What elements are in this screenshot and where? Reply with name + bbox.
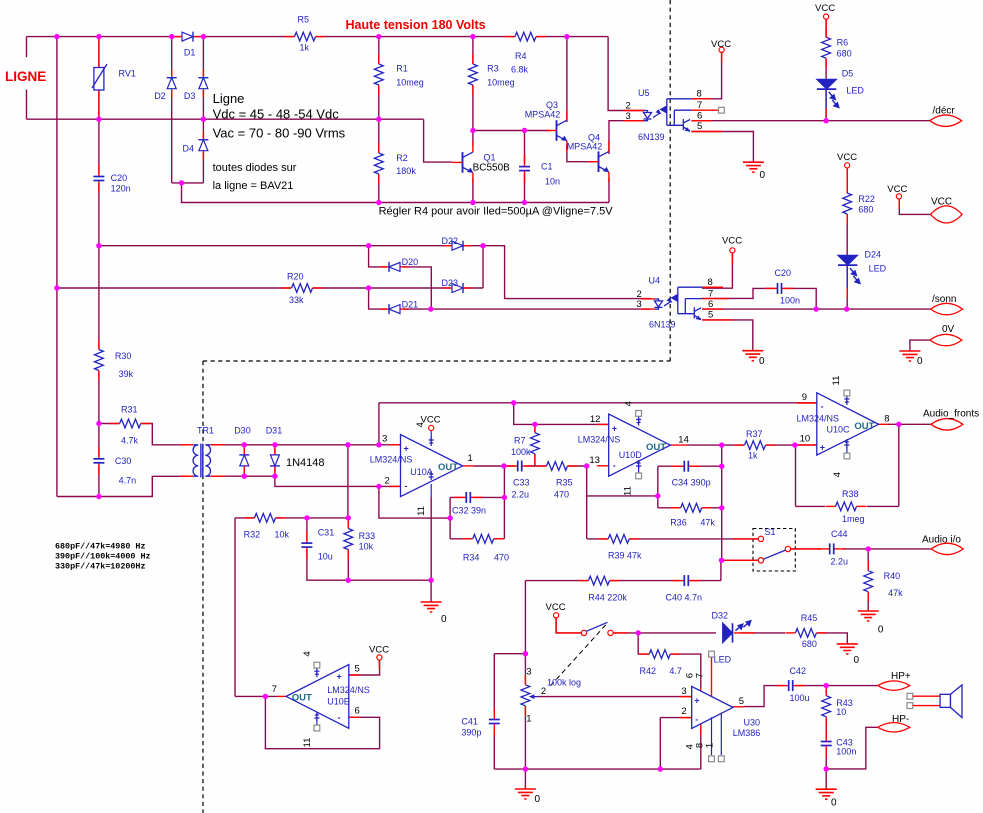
wire Q1 collector stub xyxy=(472,131,474,147)
wire U4 pin7 to C20 xyxy=(702,288,776,298)
junction (794.9,445.1) xyxy=(792,442,797,447)
wire feedback box C32 R34 xyxy=(450,466,504,539)
svg-text:100k log: 100k log xyxy=(547,677,581,687)
wire U10D out feedback vertical xyxy=(721,445,723,560)
resistor R43 xyxy=(821,686,853,727)
VCC symbol U10A pin4 xyxy=(421,415,441,431)
svg-text:RV1: RV1 xyxy=(119,69,136,79)
wire U10E pin5 to VCC xyxy=(349,660,380,675)
svg-text:/sonn: /sonn xyxy=(932,294,956,305)
speaker HP xyxy=(907,685,962,718)
svg-text:1N4148: 1N4148 xyxy=(286,457,325,469)
op-amp U10D LM324 xyxy=(578,401,689,496)
wire diode bottom link xyxy=(172,182,204,184)
svg-text:1: 1 xyxy=(468,453,473,464)
ground U5 pin5 xyxy=(743,162,766,181)
svg-text:C44: C44 xyxy=(831,529,848,539)
wire left vertical x57 xyxy=(56,37,58,497)
wire U10E output to R32 xyxy=(235,518,277,697)
junction (826.2,768.9) xyxy=(824,766,829,771)
svg-text:D2: D2 xyxy=(154,91,166,101)
wire R43 C43 column xyxy=(825,686,827,769)
svg-text:R37: R37 xyxy=(746,429,763,439)
junction (586.7,466) xyxy=(584,463,589,468)
svg-text:D5: D5 xyxy=(842,69,854,79)
svg-text:8: 8 xyxy=(708,277,713,288)
svg-text:470: 470 xyxy=(494,553,509,563)
junction (826.2,685.6) xyxy=(824,683,829,688)
op-amp U30 LM386 xyxy=(680,651,760,762)
svg-text:LED: LED xyxy=(846,86,864,96)
ground C43 xyxy=(816,789,837,808)
wire TR1 secondary top to U10A pin3 xyxy=(211,444,401,446)
potentiometer 100k log xyxy=(520,667,581,725)
wire HV bottom rail xyxy=(182,183,610,203)
svg-text:4: 4 xyxy=(302,651,313,656)
wire U10C output to Audio_fronts xyxy=(889,423,931,425)
junction (98.9,36.6) xyxy=(96,34,101,39)
wire top rail xyxy=(27,36,609,38)
svg-text:R39 47k: R39 47k xyxy=(608,551,642,561)
switch SW volume (on pot) xyxy=(549,622,614,688)
svg-text:VCC: VCC xyxy=(722,236,742,247)
resistor R22 xyxy=(842,183,875,224)
svg-text:U4: U4 xyxy=(649,276,661,286)
svg-text:LM324/NS: LM324/NS xyxy=(370,455,413,465)
wire ring lower row R20 D23 xyxy=(57,287,483,289)
wire pin13 to C34 box xyxy=(587,495,658,497)
wire D31 vertical xyxy=(274,445,276,476)
svg-text:6N139: 6N139 xyxy=(638,132,665,142)
diode D2 xyxy=(154,69,178,101)
junction (348.3,580.2) xyxy=(346,578,351,583)
svg-text:7: 7 xyxy=(272,684,277,695)
diode D21 xyxy=(381,299,419,315)
wire S1 common to C44 xyxy=(790,548,821,550)
wire C40 up to S1 contact xyxy=(720,560,722,580)
resistor R44 xyxy=(579,576,628,603)
svg-text:S1: S1 xyxy=(765,527,776,537)
capacitor C33 xyxy=(506,459,534,500)
wire C41 bottom xyxy=(493,732,495,769)
resistor R45 xyxy=(785,613,826,649)
svg-text:1: 1 xyxy=(704,743,715,748)
svg-text:C30: C30 xyxy=(115,456,132,466)
svg-text:39k: 39k xyxy=(119,369,134,379)
isolation barrier dashed line (right vertical) xyxy=(669,0,671,361)
op-amp U10E LM324 (mirrored) xyxy=(272,651,370,747)
resistor R39 xyxy=(598,534,642,561)
svg-text:D21: D21 xyxy=(402,299,419,309)
svg-text:100u: 100u xyxy=(790,693,810,703)
svg-text:R5: R5 xyxy=(298,15,310,25)
svg-text:OUT: OUT xyxy=(854,421,874,432)
wire bottom-left horizontal to TR1 xyxy=(57,476,189,496)
resistor R40 xyxy=(863,561,903,602)
junction (483,245.7) xyxy=(480,243,485,248)
diode D1 xyxy=(174,31,202,58)
svg-text:-: - xyxy=(338,713,341,723)
svg-text:R3: R3 xyxy=(487,64,499,74)
wire LIGNE bracket xyxy=(26,37,28,120)
resistor R31 xyxy=(110,404,151,445)
svg-text:7: 7 xyxy=(697,100,702,111)
svg-text:47k: 47k xyxy=(888,588,903,598)
svg-text:U10D: U10D xyxy=(619,450,643,460)
svg-text:6: 6 xyxy=(708,299,713,310)
wire U10D out row R37 to U10C pin10 xyxy=(688,444,817,446)
wire 0V port to ground xyxy=(910,340,930,351)
svg-text:R38: R38 xyxy=(842,489,859,499)
junction (504.4,497.4) xyxy=(502,495,507,500)
svg-text:12: 12 xyxy=(590,414,601,425)
wire D22/D23 cathode link xyxy=(482,246,484,288)
svg-text:C41: C41 xyxy=(461,717,478,727)
LED D24 xyxy=(838,250,887,299)
svg-text:R2: R2 xyxy=(396,153,408,163)
diode D20 xyxy=(381,257,419,273)
wire rail2 to Q1 base xyxy=(424,119,452,162)
svg-text:R31: R31 xyxy=(121,404,138,414)
ground 0V port xyxy=(899,351,923,367)
junction (181.5,182.9) xyxy=(179,180,184,185)
svg-text:100n: 100n xyxy=(780,296,800,306)
svg-text:14: 14 xyxy=(678,435,689,446)
LED D32 xyxy=(712,611,756,665)
junction (721.7,445.1) xyxy=(719,442,724,447)
svg-text:330pF//47k=10200Hz: 330pF//47k=10200Hz xyxy=(55,562,145,572)
svg-text:9: 9 xyxy=(802,392,807,403)
wire audio bottom rail xyxy=(494,768,701,770)
svg-text:D22: D22 xyxy=(442,236,459,246)
resistor R3 xyxy=(468,54,515,95)
svg-text:Q3: Q3 xyxy=(546,100,558,110)
transformer TR1 xyxy=(180,425,225,477)
junction (98.9,423.5) xyxy=(96,421,101,426)
svg-text:47k: 47k xyxy=(700,518,715,528)
svg-text:100n: 100n xyxy=(836,747,856,757)
wire VCC to volume switch xyxy=(556,618,581,633)
svg-text:VCC: VCC xyxy=(369,645,389,656)
svg-text:D4: D4 xyxy=(183,144,195,154)
svg-text:D24: D24 xyxy=(865,250,882,260)
svg-text:4.7k: 4.7k xyxy=(121,436,139,446)
diode D22 xyxy=(442,236,472,252)
resistor R35 xyxy=(537,461,578,500)
ground U4 pin5 xyxy=(742,351,765,367)
capacitor C44 xyxy=(818,529,848,567)
wire top rail corner to U5 pin2 xyxy=(608,37,644,111)
svg-text:7: 7 xyxy=(695,673,706,678)
wire C31 vertical xyxy=(306,518,308,547)
diode D23 xyxy=(442,278,472,294)
svg-text:2: 2 xyxy=(541,686,546,697)
resistor R1 xyxy=(374,54,424,95)
wire U30 pin4 down xyxy=(700,727,702,769)
resistor R4 xyxy=(505,32,546,75)
junction (524.5,130.5) xyxy=(522,128,527,133)
wire D5 column xyxy=(825,19,827,121)
svg-text:OUT: OUT xyxy=(292,693,312,704)
diode D3 xyxy=(184,69,210,101)
junction (203.4,36.6) xyxy=(201,34,206,39)
capacitor C1 xyxy=(518,155,561,187)
svg-text:R1: R1 xyxy=(396,64,408,74)
wire U4 pin6 net /sonn xyxy=(702,308,931,310)
junction (378.9,444.8) xyxy=(376,442,381,447)
junction (721.7,466.2) xyxy=(719,464,724,469)
svg-text:3: 3 xyxy=(637,299,642,310)
svg-text:2.2u: 2.2u xyxy=(512,490,530,500)
svg-text:C20: C20 xyxy=(111,173,128,183)
svg-text:0: 0 xyxy=(878,625,884,636)
wire C20 to sonn net xyxy=(784,288,817,309)
svg-text:10: 10 xyxy=(800,433,811,444)
svg-text:R20: R20 xyxy=(287,272,304,282)
svg-text:D32: D32 xyxy=(712,611,729,621)
svg-text:1k: 1k xyxy=(300,43,310,53)
wire U10A pin11 down xyxy=(430,497,432,581)
svg-text:2.2u: 2.2u xyxy=(831,557,849,567)
wire pot column xyxy=(524,654,526,769)
svg-text:3: 3 xyxy=(526,667,531,678)
wire D3 D4 branch vertical xyxy=(202,37,204,183)
junction (430.8,309.1) xyxy=(428,306,433,311)
svg-text:R7: R7 xyxy=(514,436,526,446)
svg-text:0: 0 xyxy=(535,794,541,805)
resistor R7 xyxy=(511,423,540,464)
svg-text:180k: 180k xyxy=(396,166,416,176)
VCC symbol above R22 xyxy=(837,152,857,168)
wire D21 branch xyxy=(369,288,431,309)
VCC symbol above R6 xyxy=(815,3,835,19)
junction (203.4,119.2) xyxy=(201,117,206,122)
svg-text:6: 6 xyxy=(697,110,702,121)
svg-text:0: 0 xyxy=(854,655,860,666)
junction (638.2,632.9) xyxy=(636,630,641,635)
svg-text:-: - xyxy=(821,402,824,412)
svg-text:390pF//100k=4000 Hz: 390pF//100k=4000 Hz xyxy=(55,552,151,562)
svg-text:HP+: HP+ xyxy=(891,671,911,682)
svg-text:Ligne: Ligne xyxy=(213,91,245,106)
svg-text:10meg: 10meg xyxy=(487,78,515,88)
svg-text:10u: 10u xyxy=(318,551,333,561)
svg-text:VCC: VCC xyxy=(887,184,907,195)
port Audio_fronts xyxy=(923,409,979,431)
svg-text:R4: R4 xyxy=(515,51,527,61)
ground R40 xyxy=(858,611,884,636)
svg-text:R32: R32 xyxy=(244,529,261,539)
svg-text:U30: U30 xyxy=(744,718,761,728)
wire R40 column xyxy=(867,549,869,611)
svg-text:C32 39n: C32 39n xyxy=(452,506,486,516)
svg-text:0: 0 xyxy=(441,614,447,625)
svg-text:100k: 100k xyxy=(511,447,531,457)
wire U10E feedback loop xyxy=(265,696,379,748)
svg-text:2: 2 xyxy=(385,476,390,487)
optocoupler U4 6N139 xyxy=(637,276,734,330)
svg-text:7: 7 xyxy=(708,288,713,299)
junction (368.6,245.7) xyxy=(366,243,371,248)
resistor R42 xyxy=(639,649,682,676)
svg-text:Q1: Q1 xyxy=(484,153,496,163)
junction (98.9,496.5) xyxy=(96,494,101,499)
svg-text:R22: R22 xyxy=(858,194,875,204)
junction (816.2,309.1) xyxy=(814,306,819,311)
svg-text:680: 680 xyxy=(802,639,817,649)
junction (378.8,202.5) xyxy=(376,200,381,205)
svg-text:6: 6 xyxy=(355,706,360,717)
resistor R37 xyxy=(735,429,776,461)
svg-text:R36: R36 xyxy=(670,518,687,528)
note filter frequencies xyxy=(55,541,151,571)
svg-text:Audio i/o: Audio i/o xyxy=(922,535,961,546)
svg-text:R35: R35 xyxy=(556,478,573,488)
svg-text:0: 0 xyxy=(831,798,837,809)
junction (56.9,36.6) xyxy=(54,34,59,39)
svg-text:VCC: VCC xyxy=(815,3,835,14)
resistor R5 xyxy=(285,15,326,53)
svg-text:3: 3 xyxy=(626,111,631,122)
junction (368.6,288) xyxy=(366,285,371,290)
wire pin11 ground stem xyxy=(430,580,432,602)
svg-text:-: - xyxy=(405,481,408,491)
svg-text:R34: R34 xyxy=(463,553,480,563)
port Audio i/o xyxy=(922,535,963,555)
junction (524.5,202.5) xyxy=(522,200,527,205)
svg-text:0: 0 xyxy=(760,170,766,181)
transistor Q1 BC550B xyxy=(452,142,510,183)
junction (171.7,36.6) xyxy=(169,34,174,39)
svg-text:+: + xyxy=(694,696,699,706)
svg-text:R30: R30 xyxy=(115,351,132,361)
svg-text:TR1: TR1 xyxy=(197,425,214,435)
junction (721.7,507.8) xyxy=(719,505,724,510)
wire C31 bottom to gnd row xyxy=(307,547,431,580)
svg-text:0: 0 xyxy=(917,356,923,367)
svg-text:C1: C1 xyxy=(541,162,553,172)
wire R45 to ground xyxy=(817,633,848,644)
svg-text:5: 5 xyxy=(355,663,360,674)
svg-text:VCC: VCC xyxy=(546,602,566,613)
op-amp U10C LM324 xyxy=(797,376,891,478)
junction (472.9,130.5) xyxy=(470,128,475,133)
svg-text:C34 390p: C34 390p xyxy=(672,478,711,488)
svg-text:11: 11 xyxy=(416,506,427,516)
wire switch to D32 xyxy=(613,632,716,634)
svg-text:R45: R45 xyxy=(801,613,818,623)
transistor Q4 MPSA42 xyxy=(567,133,610,183)
wire D2 branch vertical xyxy=(171,37,173,183)
svg-text:10n: 10n xyxy=(545,177,560,187)
wire pin12 branch xyxy=(514,403,609,425)
junction (472.9,202.5) xyxy=(470,200,475,205)
junction (721.5,560.3) xyxy=(719,558,724,563)
svg-text:MPSA42: MPSA42 xyxy=(525,110,561,120)
wire C34 R36 feedback box xyxy=(658,466,722,508)
capacitor C43 xyxy=(819,730,856,758)
red pin stubs at VCC symbols xyxy=(379,19,899,670)
svg-text:LM324/NS: LM324/NS xyxy=(327,685,370,695)
svg-text:4.7n: 4.7n xyxy=(119,476,137,486)
resistor R32 xyxy=(244,513,290,539)
transistor Q3 MPSA42 xyxy=(525,100,568,151)
junction (660.3,769.1) xyxy=(658,766,663,771)
svg-text:R33: R33 xyxy=(359,531,376,541)
svg-text:10k: 10k xyxy=(275,529,290,539)
wire pin13 net down xyxy=(586,466,588,539)
wire U30 pin2 branch xyxy=(660,718,691,770)
svg-text:33k: 33k xyxy=(289,295,304,305)
svg-text:6.8k: 6.8k xyxy=(511,65,529,75)
VCC symbol U5 pin8 xyxy=(711,39,731,52)
switch S1 xyxy=(725,527,821,571)
wire Q4 emitter xyxy=(608,178,610,203)
junction (306.9,517.9) xyxy=(304,515,309,520)
svg-text:VCC: VCC xyxy=(421,415,441,426)
wire S1 lower contact xyxy=(722,559,759,561)
svg-text:680: 680 xyxy=(858,205,873,215)
junction (274.9,476.2) xyxy=(272,474,277,479)
capacitor C31 xyxy=(300,528,334,562)
svg-text:11: 11 xyxy=(302,738,313,748)
resistor R38 xyxy=(796,424,899,524)
resistor R6 xyxy=(821,27,852,68)
svg-text:U10E: U10E xyxy=(327,697,350,707)
wire pot wiper to U30 pin3 xyxy=(538,696,692,698)
junction (566.9,36.6) xyxy=(564,34,569,39)
svg-text:U10A: U10A xyxy=(410,467,433,477)
svg-text:toutes diodes sur: toutes diodes sur xyxy=(213,162,297,174)
resistor R30 xyxy=(94,340,134,381)
svg-text:+: + xyxy=(337,672,342,682)
optocoupler U5 6N139 xyxy=(624,88,724,142)
svg-text:4: 4 xyxy=(832,472,843,477)
wire RV1/C20 vertical x99 xyxy=(98,37,100,497)
wire D20/D21 to U4 pin3 xyxy=(431,308,651,310)
svg-text:U5: U5 xyxy=(638,88,650,98)
wire VCC supply to port xyxy=(899,199,930,214)
junction (846.7,309.1) xyxy=(844,306,849,311)
wire Q1 emitter stub xyxy=(472,178,474,203)
resistor R34 xyxy=(463,534,509,563)
wire U4 pin8 to VCC xyxy=(702,253,732,288)
svg-text:-: - xyxy=(695,715,698,725)
svg-text:3: 3 xyxy=(681,686,686,697)
wire U10A out row C33 R35 xyxy=(474,465,587,467)
svg-text:1meg: 1meg xyxy=(842,514,865,524)
capacitor C41 xyxy=(461,708,501,738)
wire C43 to HP- xyxy=(826,727,878,769)
wire Q3 emitter to Q4 base xyxy=(567,146,594,162)
svg-text:5: 5 xyxy=(739,696,744,707)
svg-text:C31: C31 xyxy=(318,528,335,538)
wire D32 to R45 xyxy=(741,632,786,634)
junction (348.3,517.9) xyxy=(346,515,351,520)
svg-text:R40: R40 xyxy=(884,571,901,581)
svg-text:LED: LED xyxy=(869,264,887,274)
LED D5 xyxy=(817,69,865,118)
capacitor C40 xyxy=(666,574,703,603)
svg-text:R6: R6 xyxy=(837,38,849,48)
svg-text:3: 3 xyxy=(382,434,387,445)
svg-text:2: 2 xyxy=(681,706,686,717)
svg-text:680: 680 xyxy=(837,49,852,59)
svg-text:R44 220k: R44 220k xyxy=(588,593,627,603)
svg-text:LM324/NS: LM324/NS xyxy=(578,435,621,445)
VCC symbol volume switch xyxy=(546,602,566,618)
svg-text:VCC: VCC xyxy=(837,152,857,163)
